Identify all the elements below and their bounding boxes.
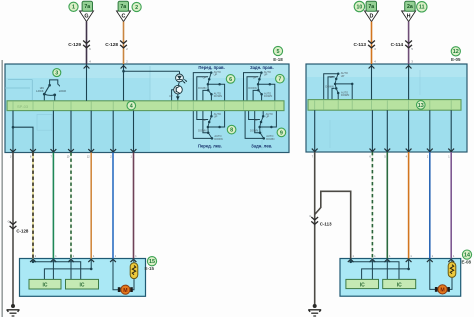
E-08 motor feed wiring — [430, 259, 452, 290]
svg-text:D: D — [370, 13, 374, 19]
svg-text:DOWN: DOWN — [214, 94, 222, 98]
svg-text:11: 11 — [419, 5, 425, 11]
internal stub bus to bottom pin at x=91.2 — [90, 111, 92, 153]
wire violet to E-08 pin 6 — [450, 152, 452, 259]
E-08 window motor M — [435, 285, 450, 294]
internal stub bus to bottom pin at x=113.2 — [112, 111, 114, 153]
svg-text:1: 1 — [72, 5, 75, 11]
bus bar 13 — [308, 100, 461, 111]
wire to right ground (dark gray) — [314, 152, 316, 306]
wire blue to E-15 pin 5 — [112, 153, 114, 259]
E-15 IC1 — [29, 279, 61, 289]
svg-text:DOWN: DOWN — [341, 93, 349, 97]
E-08 pin entry chevrons — [348, 259, 354, 262]
E-15 internal rail pin1 to IC2 — [33, 259, 81, 280]
svg-text:UP: UP — [341, 74, 345, 78]
bottom pin exit chevron x=133.5 — [131, 149, 137, 152]
page ref 2a (H) — [405, 1, 415, 11]
pin G entry chevron — [84, 66, 90, 69]
internal stub bus to bottom pin at x=408.6 — [408, 110, 410, 152]
circled ref 6 — [226, 75, 235, 84]
svg-text:DOWN: DOWN — [198, 86, 206, 90]
svg-text:C-129: C-129 — [68, 42, 81, 47]
internal stub from pin C to bus bar — [123, 64, 125, 101]
internal stub from pin H to bus bar — [408, 64, 410, 100]
window motor module E-08 box — [340, 259, 461, 297]
svg-text:Перед. лев.: Перед. лев. — [198, 144, 222, 149]
E-08 internal rail pin4 to IC1 — [362, 259, 409, 280]
svg-text:DOWN: DOWN — [250, 129, 258, 133]
svg-text:DOWN: DOWN — [198, 129, 206, 133]
bottom pin exit chevron x=71 — [68, 149, 74, 152]
branch from ground wire to E-08 pin 1 — [315, 191, 351, 258]
svg-text:LOCK: LOCK — [59, 89, 67, 93]
svg-text:Перед. прав.: Перед. прав. — [198, 65, 224, 70]
svg-text:E-15: E-15 — [145, 266, 155, 271]
svg-text:UP: UP — [266, 115, 270, 119]
wire maroon to E-15 pin 6 — [133, 153, 135, 259]
internal stub bus to bottom pin 1 with tee to pin 2 — [13, 111, 33, 153]
wire white/green to E-08 pin 2 — [371, 152, 373, 259]
circled ref 9 — [277, 128, 286, 137]
svg-text:UP: UP — [253, 75, 257, 79]
wire orange to E-08 pin 4 — [408, 152, 410, 259]
svg-text:UP: UP — [169, 95, 173, 98]
circled ref 5 / connector E-18 label — [273, 46, 282, 55]
svg-text:C-128: C-128 — [16, 228, 29, 233]
wire yellow/black to E-15 pin 1 — [32, 153, 34, 259]
internal stub bus to bottom pin at x=387.3 — [386, 110, 388, 152]
E-15 motor feed wiring — [113, 259, 134, 290]
circled ref 3 — [53, 69, 61, 77]
E-15 circuit breaker (PTC) — [130, 263, 138, 279]
switch block 6 (Перед. прав.) — [193, 70, 224, 101]
wire G (dark violet) — [86, 22, 88, 64]
wire green to E-15 pin 2 — [52, 153, 54, 259]
svg-text:C-114: C-114 — [391, 42, 404, 47]
svg-text:M: M — [440, 288, 444, 294]
svg-text:6: 6 — [229, 77, 232, 83]
svg-text:UP: UP — [254, 118, 258, 122]
in-line connector C-114 — [405, 41, 412, 44]
internal stub bus to bottom pin at x=372.4 — [371, 110, 373, 152]
transistor indicator driver — [169, 82, 182, 101]
in-line connector C-129 — [83, 41, 90, 44]
svg-text:14: 14 — [464, 253, 470, 259]
svg-text:DOWN: DOWN — [248, 86, 256, 90]
svg-text:2a: 2a — [407, 4, 413, 10]
svg-text:UP: UP — [214, 115, 218, 119]
svg-text:15: 15 — [149, 259, 155, 265]
internal stub bus to bottom pin at x=53.4 — [52, 111, 54, 153]
switch block 9 (Задн. лев.) — [245, 111, 276, 141]
E-08 internal rail pin1 to IC2 — [351, 259, 399, 280]
circled ref 2 — [132, 2, 141, 11]
switch block 8 (Перед. лев.) — [193, 111, 224, 141]
svg-text:7: 7 — [278, 77, 281, 83]
wire white/green to E-15 pin 3 — [70, 153, 72, 259]
in-line connector C-128 — [120, 41, 127, 44]
svg-text:7a: 7a — [84, 4, 90, 10]
svg-text:G: G — [84, 13, 88, 19]
right ground symbol — [308, 305, 321, 317]
left ground symbol — [7, 305, 20, 317]
svg-text:Задн. лев.: Задн. лев. — [251, 144, 272, 149]
bus bar 4 — [7, 101, 284, 111]
svg-text:IC: IC — [43, 283, 48, 289]
pin C entry chevron — [121, 66, 127, 69]
E-08 circuit breaker (PTC) — [448, 262, 456, 277]
internal stub from pin D to bus bar — [371, 64, 373, 100]
window motor module E-15 box — [20, 259, 146, 297]
circled ref 1 — [69, 2, 78, 11]
svg-text:UP: UP — [203, 118, 207, 122]
circled ref 14 / connector E-08 label — [462, 250, 471, 259]
internal stub bus to bottom pin at x=451.2 — [450, 110, 452, 152]
window lock switch 3 — [36, 80, 66, 101]
circled ref 11 — [417, 2, 427, 12]
power window switch module E-05 box — [306, 64, 467, 152]
bottom pin exit chevron x=53.4 — [51, 149, 57, 152]
E-08 stub pin3 to IC2 — [386, 259, 388, 280]
connector triangle H — [402, 11, 416, 22]
svg-text:4: 4 — [130, 104, 133, 110]
in-line connector C-113 (ground wire) — [311, 217, 318, 220]
svg-text:7a: 7a — [368, 4, 374, 10]
svg-text:C-128: C-128 — [105, 42, 118, 47]
E-15 stub pin3 to IC2 — [70, 259, 72, 280]
svg-text:C-113: C-113 — [353, 42, 366, 47]
svg-text:M: M — [123, 288, 127, 294]
svg-text:C: C — [122, 13, 126, 19]
E-08 IC1 — [346, 279, 379, 288]
connector triangle G — [80, 11, 94, 22]
svg-text:8: 8 — [230, 128, 233, 134]
svg-text:DOWN: DOWN — [266, 137, 274, 141]
wire to left ground (dark gray) — [12, 153, 14, 307]
internal stub bus to bottom pin at x=133.5 — [133, 111, 135, 153]
LED indicator diode — [176, 71, 187, 83]
internal junction: C wire tap for indicator — [124, 70, 180, 72]
switch block 7 (Задн. прав.) — [244, 70, 275, 101]
svg-text:UP: UP — [330, 75, 334, 79]
svg-text:7a: 7a — [120, 4, 126, 10]
wire D (orange) — [371, 22, 373, 64]
svg-text:10: 10 — [357, 4, 363, 10]
wire orange to E-15 pin 4 — [90, 153, 92, 259]
pin H entry chevron — [406, 66, 412, 69]
svg-text:2: 2 — [135, 5, 138, 11]
internal stub bus to bottom pin at x=71 — [70, 111, 72, 153]
E-15 window motor M — [118, 285, 133, 294]
bottom pin exit chevron x=113.2 — [110, 149, 116, 152]
circled ref 13 — [417, 101, 426, 110]
pin D entry chevron — [369, 66, 375, 69]
page ref 7a (C) — [118, 1, 128, 11]
svg-text:SP-03: SP-03 — [17, 104, 29, 109]
circled ref 12 / connector E-05 label — [451, 47, 460, 56]
internal stub bus to bottom pin at x=429.8 — [429, 110, 431, 152]
switch assembly in E-05 — [324, 71, 354, 99]
svg-text:G: G — [8, 221, 10, 224]
svg-text:Задн. прав.: Задн. прав. — [250, 65, 274, 70]
svg-text:DOWN: DOWN — [325, 84, 333, 88]
wire H (violet) — [408, 22, 410, 64]
svg-text:E-08: E-08 — [462, 260, 472, 265]
page ref 7a (G) — [82, 1, 92, 11]
circled ref 4 — [127, 101, 136, 110]
svg-text:IC: IC — [360, 282, 365, 288]
circled ref 10 — [354, 1, 364, 11]
circled ref 15 / connector E-15 label — [147, 257, 156, 266]
E-08 stub pin2 to IC1 — [371, 259, 373, 280]
svg-text:DOWN: DOWN — [214, 137, 222, 141]
internal stub bus to bottom pin at x=314.7 — [314, 110, 316, 152]
svg-text:LOCK: LOCK — [36, 89, 44, 93]
svg-text:IC: IC — [80, 283, 85, 289]
wire green to E-08 pin 3 — [386, 152, 388, 259]
circled ref 7 — [276, 74, 285, 83]
in-line connector C-128 (ground wire) — [10, 222, 17, 225]
connector triangle D — [365, 11, 379, 22]
svg-text:IC: IC — [397, 282, 402, 288]
svg-text:C-113: C-113 — [320, 222, 332, 227]
svg-text:E-05: E-05 — [451, 57, 461, 62]
svg-text:UP: UP — [264, 73, 268, 77]
svg-text:UP: UP — [214, 73, 218, 77]
wire C (orange) — [123, 22, 125, 64]
svg-text:DOWN: DOWN — [264, 94, 272, 98]
connector triangle C — [117, 11, 131, 22]
svg-text:E-18: E-18 — [273, 57, 283, 62]
in-line connector C-113 (top) — [368, 41, 375, 44]
svg-text:12: 12 — [453, 49, 459, 55]
circled ref 8 — [227, 125, 236, 134]
page ref 7a (D) — [366, 1, 376, 11]
E-15 pin entry chevrons — [30, 259, 36, 262]
bottom pin exit chevron x=91.2 — [88, 149, 94, 152]
E-15 stub pin2 to IC1 — [52, 259, 54, 280]
svg-text:5: 5 — [277, 49, 280, 55]
svg-text:13: 13 — [418, 103, 424, 109]
svg-text:UP: UP — [203, 75, 207, 79]
E-08 IC2 — [383, 279, 416, 288]
E-15 IC2 — [66, 279, 99, 289]
internal stub from pin G to bus bar — [86, 64, 88, 101]
wire blue to E-08 pin 5 — [429, 152, 431, 259]
E-15 internal rail pin4 to IC1 — [44, 259, 91, 280]
bottom pin exit chevron x=13 — [10, 149, 16, 152]
power window main switch module E-18 box — [5, 64, 289, 153]
svg-text:9: 9 — [280, 130, 283, 136]
bottom pin exit chevron x=33 — [30, 149, 36, 152]
svg-text:3: 3 — [55, 71, 58, 77]
svg-text:G: G — [309, 215, 311, 218]
svg-text:H: H — [407, 13, 411, 19]
